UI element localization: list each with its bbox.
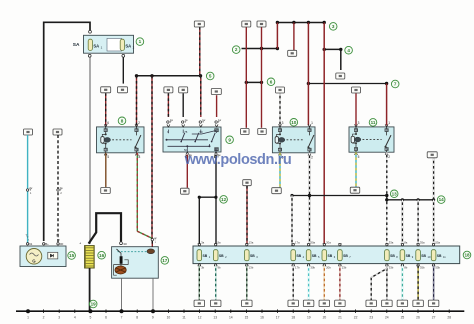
svg-text:15: 15 — [245, 315, 249, 319]
svg-text:25: 25 — [401, 315, 405, 319]
svg-text:13b: 13b — [249, 266, 254, 270]
svg-text:2: 2 — [43, 315, 45, 319]
svg-text:20a: 20a — [326, 240, 331, 244]
svg-text:12: 12 — [198, 315, 202, 319]
svg-text:SB: SB — [437, 254, 442, 258]
svg-text:23: 23 — [369, 315, 373, 319]
svg-text:30: 30 — [123, 242, 127, 246]
svg-text:20: 20 — [323, 315, 327, 319]
svg-text:2w: 2w — [29, 187, 32, 190]
svg-text:9: 9 — [152, 315, 154, 319]
svg-text:SB: SB — [406, 254, 411, 258]
svg-text:8b: 8b — [404, 266, 408, 270]
svg-text:5: 5 — [89, 315, 91, 319]
svg-text:SB: SB — [328, 254, 333, 258]
svg-text:4: 4 — [347, 48, 350, 53]
svg-text:1w: 1w — [218, 119, 221, 122]
svg-text:22: 22 — [354, 315, 358, 319]
svg-text:2w: 2w — [60, 187, 63, 190]
svg-text:SB: SB — [296, 254, 301, 258]
svg-text:8: 8 — [136, 315, 138, 319]
svg-text:SB: SB — [343, 254, 348, 258]
svg-text:2: 2 — [311, 155, 313, 159]
svg-text:4: 4 — [74, 315, 76, 319]
svg-text:SA: SA — [93, 43, 99, 48]
svg-text:13: 13 — [392, 191, 398, 196]
svg-text:1: 1 — [27, 315, 29, 319]
svg-text:55b: 55b — [435, 266, 440, 270]
svg-text:19: 19 — [91, 302, 97, 307]
svg-text:3b: 3b — [201, 266, 205, 270]
svg-text:SA: SA — [125, 43, 131, 48]
svg-text:9a: 9a — [218, 240, 222, 244]
svg-text:www.polosdn.ru: www.polosdn.ru — [184, 152, 292, 168]
svg-text:11: 11 — [371, 120, 376, 125]
svg-text:12: 12 — [221, 197, 227, 202]
svg-text:15: 15 — [69, 253, 75, 258]
svg-text:9: 9 — [228, 137, 231, 142]
svg-text:19: 19 — [307, 315, 311, 319]
svg-text:21: 21 — [338, 315, 342, 319]
svg-text:5: 5 — [209, 74, 212, 79]
svg-text:20b: 20b — [326, 266, 331, 270]
svg-text:+: + — [79, 241, 81, 245]
svg-text:13: 13 — [213, 315, 217, 319]
svg-text:10: 10 — [291, 120, 297, 125]
svg-text:24: 24 — [385, 315, 389, 319]
svg-text:3: 3 — [58, 315, 60, 319]
svg-text:3: 3 — [332, 24, 335, 29]
svg-text:26: 26 — [416, 315, 420, 319]
svg-text:6: 6 — [107, 121, 109, 125]
svg-text:8a: 8a — [404, 240, 408, 244]
svg-text:28: 28 — [447, 315, 451, 319]
svg-text:4: 4 — [107, 155, 109, 159]
svg-text:13a: 13a — [249, 240, 254, 244]
svg-text:23b: 23b — [342, 266, 347, 270]
svg-text:1: 1 — [139, 39, 142, 44]
svg-text:3: 3 — [358, 121, 360, 125]
svg-text:1w: 1w — [202, 119, 205, 122]
svg-text:SB: SB — [421, 254, 426, 258]
svg-text:11: 11 — [182, 315, 186, 319]
svg-text:SA: SA — [73, 42, 80, 48]
svg-text:3a: 3a — [201, 240, 205, 244]
svg-text:2: 2 — [388, 155, 390, 159]
svg-text:7: 7 — [121, 315, 123, 319]
svg-text:17: 17 — [162, 258, 168, 263]
svg-text:SB: SB — [390, 254, 395, 258]
svg-text:35b: 35b — [420, 266, 425, 270]
svg-text:2: 2 — [138, 121, 140, 125]
svg-text:18: 18 — [464, 253, 470, 258]
svg-text:9b: 9b — [218, 266, 222, 270]
svg-text:1: 1 — [311, 121, 313, 125]
svg-text:14: 14 — [229, 315, 233, 319]
svg-text:1w: 1w — [185, 119, 188, 122]
svg-text:7: 7 — [394, 82, 397, 87]
svg-text:10: 10 — [167, 315, 171, 319]
svg-text:1w: 1w — [170, 119, 173, 122]
svg-text:30a: 30a — [310, 240, 315, 244]
svg-text:30b: 30b — [310, 266, 315, 270]
svg-text:SB: SB — [219, 254, 224, 258]
svg-text:16: 16 — [99, 253, 105, 258]
svg-text:8: 8 — [121, 118, 124, 123]
svg-text:18: 18 — [291, 315, 295, 319]
svg-text:sw: sw — [154, 238, 157, 240]
svg-text:33b: 33b — [389, 266, 394, 270]
svg-text:17: 17 — [276, 315, 280, 319]
svg-text:1: 1 — [388, 121, 390, 125]
svg-text:6: 6 — [105, 315, 107, 319]
svg-text:3: 3 — [282, 121, 284, 125]
svg-text:2: 2 — [235, 47, 238, 52]
svg-text:SB: SB — [203, 254, 208, 258]
svg-text:SB: SB — [250, 254, 255, 258]
svg-text:35a: 35a — [420, 240, 425, 244]
svg-text:27: 27 — [432, 315, 436, 319]
svg-text:17b: 17b — [295, 266, 300, 270]
svg-text:5: 5 — [358, 155, 360, 159]
svg-text:55a: 55a — [435, 240, 440, 244]
svg-text:SB: SB — [312, 254, 317, 258]
svg-text:G: G — [32, 258, 36, 263]
svg-text:16: 16 — [260, 315, 264, 319]
svg-text:6: 6 — [270, 79, 273, 84]
svg-text:33a: 33a — [389, 240, 394, 244]
svg-text:8: 8 — [139, 155, 141, 159]
svg-text:17a: 17a — [295, 240, 300, 244]
svg-text:14: 14 — [439, 197, 445, 202]
